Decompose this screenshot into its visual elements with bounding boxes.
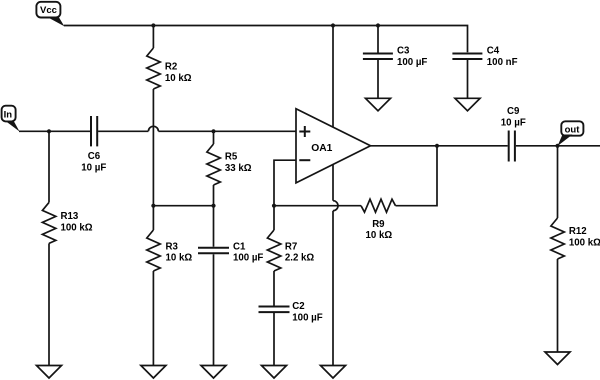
wire: C9 right plate to right edge of image <box>516 145 600 147</box>
node: junction input wire / R5 <box>211 129 215 133</box>
node: mid junction R2/R3 column <box>151 204 155 208</box>
wire: op-amp positive supply stub from rail <box>332 26 334 127</box>
svg-text:C9: C9 <box>507 106 520 117</box>
ground: under R3 <box>141 366 166 379</box>
svg-text:C2: C2 <box>292 301 304 312</box>
ground: under C4 <box>455 98 480 111</box>
wire: C3 bottom lead to ground <box>377 60 379 98</box>
op-amp OA1 triangle <box>296 109 371 183</box>
wire: C4 bottom lead to ground <box>467 60 469 98</box>
svg-text:10 kΩ: 10 kΩ <box>366 230 393 241</box>
node: rail junction at R2 column <box>151 23 155 27</box>
svg-text:Vcc: Vcc <box>40 5 57 16</box>
svg-text:33 kΩ: 33 kΩ <box>225 163 252 174</box>
wire: C1 top lead <box>213 206 215 247</box>
ground: under R13 <box>37 366 62 379</box>
wire: R3 bottom lead to ground <box>152 271 154 366</box>
capacitor C1 plates <box>198 248 229 254</box>
svg-text:2.2 kΩ: 2.2 kΩ <box>285 252 315 263</box>
resistor R3 zigzag <box>147 230 160 271</box>
terminal flag In tail <box>5 121 20 132</box>
wire: R12 top lead <box>557 146 559 218</box>
svg-text:out: out <box>565 124 581 135</box>
op-amp OA1 minus input symbol <box>299 159 310 161</box>
wire: feedback wire from node to R9 <box>274 205 361 207</box>
node: out junction at R12 <box>555 144 559 148</box>
resistor R5 zigzag <box>207 144 220 185</box>
node: output junction with feedback <box>435 144 439 148</box>
capacitor C3 plates <box>363 54 393 60</box>
wire: R9 right lead up to output node <box>396 146 438 206</box>
wire: minus input stub to feedback column <box>274 160 296 206</box>
node: rail junction at C3 column <box>376 23 380 27</box>
svg-text:In: In <box>4 110 13 121</box>
capacitor C6 plates <box>91 116 97 146</box>
wire: mid wire between R3 node and C1 node <box>153 205 213 207</box>
node: junction input wire / R13 <box>47 129 51 133</box>
capacitor C2 plates <box>259 307 290 313</box>
resistor R12 zigzag <box>551 218 564 259</box>
op-amp OA1 plus input symbol <box>299 126 310 137</box>
resistor R13 zigzag <box>42 202 55 243</box>
svg-text:R13: R13 <box>61 211 79 222</box>
wire: hop over vertical wire at (153.4,131.3) <box>148 126 158 131</box>
wire: C2 bottom lead to ground <box>273 313 275 366</box>
ground: under op-amp <box>321 366 346 379</box>
resistor R9 zigzag <box>361 199 396 212</box>
wire: R13 top lead <box>48 131 50 202</box>
ground: under C1 <box>201 366 226 379</box>
svg-text:100 µF: 100 µF <box>397 57 427 68</box>
svg-text:100 kΩ: 100 kΩ <box>569 237 600 248</box>
svg-text:10 µF: 10 µF <box>81 162 106 173</box>
wire: R2 top lead from rail <box>152 26 154 49</box>
ground: under C3 <box>366 98 391 111</box>
terminal flag In box <box>2 106 16 122</box>
svg-text:10 µF: 10 µF <box>501 118 526 129</box>
capacitor C4 plates <box>452 54 482 60</box>
svg-text:C1: C1 <box>233 241 246 252</box>
wire: C6 right plate to hop at x=153 <box>98 130 148 132</box>
node: mid junction R5/C1 column <box>211 204 215 208</box>
wire: supply stub below hop to ground <box>332 211 334 366</box>
svg-text:OA1: OA1 <box>311 143 332 154</box>
resistor R7 zigzag <box>267 230 280 271</box>
capacitor C9 plates <box>509 131 515 162</box>
svg-text:100 nF: 100 nF <box>487 57 518 68</box>
svg-text:C4: C4 <box>487 45 500 56</box>
svg-text:100 µF: 100 µF <box>233 252 263 263</box>
wire: op-amp negative supply stub down to hop <box>332 165 334 201</box>
power flag Vcc tail <box>47 17 65 27</box>
svg-text:C3: C3 <box>397 45 410 56</box>
wire: R5 bottom lead to mid node <box>213 185 215 206</box>
svg-text:R9: R9 <box>372 219 385 230</box>
svg-text:100 µF: 100 µF <box>292 313 322 324</box>
svg-text:R2: R2 <box>165 61 177 72</box>
wire: hop of supply wire over feedback wire <box>333 201 338 211</box>
wire: R5 top lead <box>213 131 215 144</box>
wire: R2 bottom lead down through input-wire crossover to mid node <box>152 89 154 206</box>
wire: R7 bottom lead to C2 <box>273 271 275 306</box>
svg-text:10 kΩ: 10 kΩ <box>165 73 192 84</box>
svg-text:10 kΩ: 10 kΩ <box>166 252 193 263</box>
resistor R2 zigzag <box>147 48 160 89</box>
power flag Vcc box <box>36 2 60 18</box>
terminal flag out box <box>561 121 583 135</box>
wire: R13 bottom lead to ground <box>48 243 50 365</box>
wire: C3 top lead from rail <box>377 26 379 53</box>
node: rail junction at op-amp power column <box>331 23 335 27</box>
svg-text:C6: C6 <box>88 151 101 162</box>
wire: R7 top lead <box>273 206 275 230</box>
wire: op-amp output to C9 left plate <box>371 145 508 147</box>
ground: under C2 <box>262 366 287 379</box>
wire: hop to op-amp + input <box>158 130 296 132</box>
svg-text:R7: R7 <box>285 241 297 252</box>
wire: input wire from In tail to C6 left plate <box>19 130 90 132</box>
ground: under R12 <box>545 352 570 365</box>
wire: R3 top lead <box>152 206 154 230</box>
svg-text:R3: R3 <box>166 241 179 252</box>
svg-text:R12: R12 <box>569 226 587 237</box>
wire: C1 bottom lead to ground <box>213 254 215 365</box>
wire: R12 bottom lead to ground <box>557 259 559 352</box>
svg-text:R5: R5 <box>225 152 238 163</box>
svg-text:100 kΩ: 100 kΩ <box>61 222 93 233</box>
node: feedback junction at R7 top <box>272 204 276 208</box>
terminal flag out tail <box>558 135 573 147</box>
wire: Vcc top rail from (63.8,25.5) to (467.5,25.5) then down to C4 <box>64 26 468 53</box>
